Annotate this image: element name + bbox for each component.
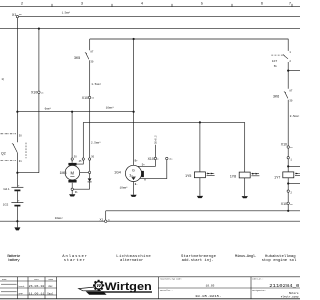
wire W stub	[140, 159, 167, 179]
svg-text:M: M	[71, 170, 75, 175]
function labels row	[7, 254, 297, 263]
svg-text:X10: X10	[82, 96, 88, 100]
X10 connector (right, y147)	[281, 142, 293, 149]
svg-text:Wirtgen: Wirtgen	[105, 281, 152, 293]
wire x133.6 B+ riser	[133, 39, 135, 195]
svg-text:Lichtmaschine: Lichtmaschine	[116, 254, 151, 259]
svg-text:11.06.11: 11.06.11	[29, 293, 45, 296]
svg-text:3: 3	[81, 2, 83, 6]
svg-text:3K5: 3K5	[74, 56, 80, 60]
X10 connector (x39)	[31, 91, 44, 95]
svg-text:10.05: 10.05	[206, 285, 215, 288]
battery G2.1	[3, 184, 23, 191]
svg-text:Q2: Q2	[1, 151, 6, 155]
ground (1Y8)	[242, 196, 248, 198]
wire motor 31 to ground and diode	[72, 182, 89, 194]
wire x38.9 X10 drop	[38, 29, 40, 173]
ground (battery)	[14, 227, 20, 230]
svg-text:2110284_0: 2110284_0	[269, 283, 299, 289]
svg-text:electr.comp: electr.comp	[281, 295, 299, 299]
svg-text:2.5mm²: 2.5mm²	[91, 141, 101, 144]
svg-text:1F7: 1F7	[272, 59, 278, 63]
frame top border	[0, 5, 300, 7]
svg-text:X10: X10	[148, 157, 154, 161]
wire rail y28.6	[0, 28, 300, 30]
junction 1Y5 feed	[199, 121, 201, 123]
wire y210.8	[106, 210, 300, 212]
alternator 1G4	[114, 160, 146, 190]
svg-text:1G2: 1G2	[3, 202, 9, 206]
svg-text:30: 30	[289, 100, 293, 103]
svg-text:starter: starter	[64, 259, 85, 263]
svg-text:Maschinen-Typ Code:: Maschinen-Typ Code:	[160, 278, 182, 281]
starter motor 1M3	[60, 155, 95, 194]
wire x244.7 1Y8 drop	[244, 122, 246, 196]
wire stub y166.4	[288, 165, 300, 167]
svg-text:1M3: 1M3	[60, 171, 67, 175]
ground (alternator)	[130, 195, 136, 197]
svg-text:bearb: bearb	[19, 285, 25, 288]
svg-text:Bestellnr.:: Bestellnr.:	[160, 289, 172, 292]
junction ground return	[287, 210, 289, 212]
junction 1F7 output	[287, 70, 289, 72]
svg-text:Saal: Saal	[47, 292, 54, 295]
svg-text:87: 87	[90, 50, 94, 53]
svg-text:16mm²: 16mm²	[55, 217, 63, 220]
ruler numbers	[21, 2, 291, 6]
junction battery ground	[16, 220, 18, 222]
wire stub y70.6	[288, 70, 300, 72]
svg-text:stop engine sol: stop engine sol	[262, 258, 297, 263]
X10 connector (right, y203)	[281, 202, 293, 206]
svg-text:X1: X1	[12, 13, 17, 17]
svg-text:Ident-Nr.:: Ident-Nr.:	[252, 278, 263, 281]
svg-text:add.start inj.: add.start inj.	[182, 258, 214, 263]
ruler tick x172	[171, 4, 173, 7]
wire x288.2 right column	[287, 39, 289, 211]
title block texts right	[160, 278, 299, 299]
svg-text:B+: B+	[135, 160, 139, 163]
svg-text:G: G	[132, 168, 135, 172]
breaker 1F7 5A	[271, 51, 291, 68]
junction starter 30	[71, 111, 73, 113]
relay contact 3K6	[273, 89, 300, 118]
ruler tick x292	[291, 4, 293, 7]
svg-text:D+: D+	[142, 164, 146, 167]
svg-text:50+0.2: 50+0.2	[155, 135, 158, 144]
junction 1Y7 pin1 stub	[287, 165, 289, 167]
svg-text:4: 4	[141, 2, 143, 6]
junction B+ riser	[133, 111, 135, 113]
svg-text:7: 7	[289, 2, 291, 6]
title block frame	[0, 277, 300, 299]
solenoid valve 1Y8	[230, 172, 260, 178]
svg-text:1.5mm²: 1.5mm²	[62, 12, 71, 15]
Wirtgen logo	[79, 280, 152, 295]
svg-text:battery: battery	[8, 258, 20, 263]
wire y172.7 (battery link)	[17, 172, 39, 174]
wire D+ stub	[138, 145, 155, 167]
battery 1G2	[3, 200, 24, 207]
junction B+ rail	[133, 38, 135, 40]
svg-text:5: 5	[201, 2, 203, 6]
svg-text:W: W	[97, 283, 102, 289]
title block texts left	[2, 278, 54, 296]
junction 1Y7 pin2 stub	[287, 182, 289, 184]
svg-text:Startmehrmenge: Startmehrmenge	[181, 254, 217, 259]
ruler tick x112	[111, 4, 113, 7]
svg-text:30: 30	[90, 61, 94, 64]
svg-text:10mm²: 10mm²	[120, 187, 128, 190]
svg-text:1): 1)	[1, 77, 4, 81]
wire rail y39 (3K5 to 1F7)	[90, 38, 289, 40]
svg-text:Anlasser: Anlasser	[62, 254, 87, 259]
wire x17.4 battery column	[16, 17, 18, 228]
svg-text:X10: X10	[31, 91, 37, 95]
wire y122.4 (45-terminal to 1Y5/1Y8)	[83, 121, 244, 123]
wire X1 riser at bus	[105, 211, 107, 220]
wire bus y111.7 (6mm2/16mm2)	[17, 111, 133, 113]
X10 connector (x89.6)	[82, 96, 95, 100]
svg-text:Hubabstellmag: Hubabstellmag	[265, 254, 296, 259]
svg-text:Motore: Motore	[289, 292, 299, 295]
svg-text:B-: B-	[135, 183, 139, 186]
junction battery bus left	[16, 111, 18, 113]
relay contact 3K5	[74, 50, 101, 85]
svg-text:X1: X1	[100, 218, 104, 222]
svg-text:Designation:: Designation:	[252, 289, 266, 292]
ground (1Y5)	[197, 196, 203, 198]
wire x89.7 3K5 to starter 50	[89, 39, 91, 178]
junction battery link	[16, 172, 18, 174]
X10 connectors D+/W	[148, 157, 174, 161]
svg-text:16mm²: 16mm²	[106, 107, 114, 110]
svg-text:3K6: 3K6	[273, 95, 279, 99]
wire x72.1 starter 30	[71, 112, 73, 163]
svg-text:1Y5: 1Y5	[185, 174, 191, 178]
svg-text:Minus-Angl.: Minus-Angl.	[235, 254, 257, 259]
svg-text:1.5mm²: 1.5mm²	[91, 83, 101, 86]
wire stub y183.5	[288, 183, 300, 185]
svg-text:6: 6	[261, 2, 263, 6]
svg-text:0.5mm²: 0.5mm²	[290, 115, 300, 118]
ruler tick x52	[51, 4, 53, 7]
svg-text:10.05.0215-: 10.05.0215-	[195, 295, 222, 298]
junction X1 rail	[38, 28, 40, 30]
wire bus y221.2 (16mm2 ground bus)	[0, 220, 300, 222]
ruler tick x232	[231, 4, 233, 7]
svg-text:6mm²: 6mm²	[45, 107, 52, 110]
svg-text:1Y7: 1Y7	[274, 175, 280, 179]
svg-text:1G4: 1G4	[114, 171, 121, 175]
svg-text:alternator: alternator	[120, 258, 143, 263]
connector X1 (bus)	[100, 218, 111, 223]
svg-text:gepr: gepr	[19, 292, 24, 295]
solenoid valve 1Y5	[185, 172, 215, 178]
svg-text:2: 2	[21, 2, 23, 6]
diode (starter solenoid)	[88, 178, 92, 182]
connector X1 top	[12, 12, 71, 18]
svg-text:G2.1: G2.1	[3, 187, 10, 191]
battery switch Q2	[1, 134, 27, 163]
ground (motor)	[69, 194, 75, 196]
solenoid valve 1Y7	[274, 157, 300, 195]
svg-text:Batterie: Batterie	[7, 254, 21, 259]
wire rail y16.7 from X1	[18, 16, 300, 18]
svg-text:X10: X10	[281, 202, 287, 206]
svg-text:X10: X10	[281, 142, 287, 146]
svg-text:87: 87	[289, 89, 293, 92]
wire x83.3 starter 45	[77, 122, 84, 164]
wire x199.9 1Y5 drop	[199, 122, 201, 195]
svg-text:26.06.10: 26.06.10	[29, 285, 45, 288]
svg-text:1Y8: 1Y8	[230, 174, 236, 178]
svg-text:Jax: Jax	[48, 285, 53, 288]
